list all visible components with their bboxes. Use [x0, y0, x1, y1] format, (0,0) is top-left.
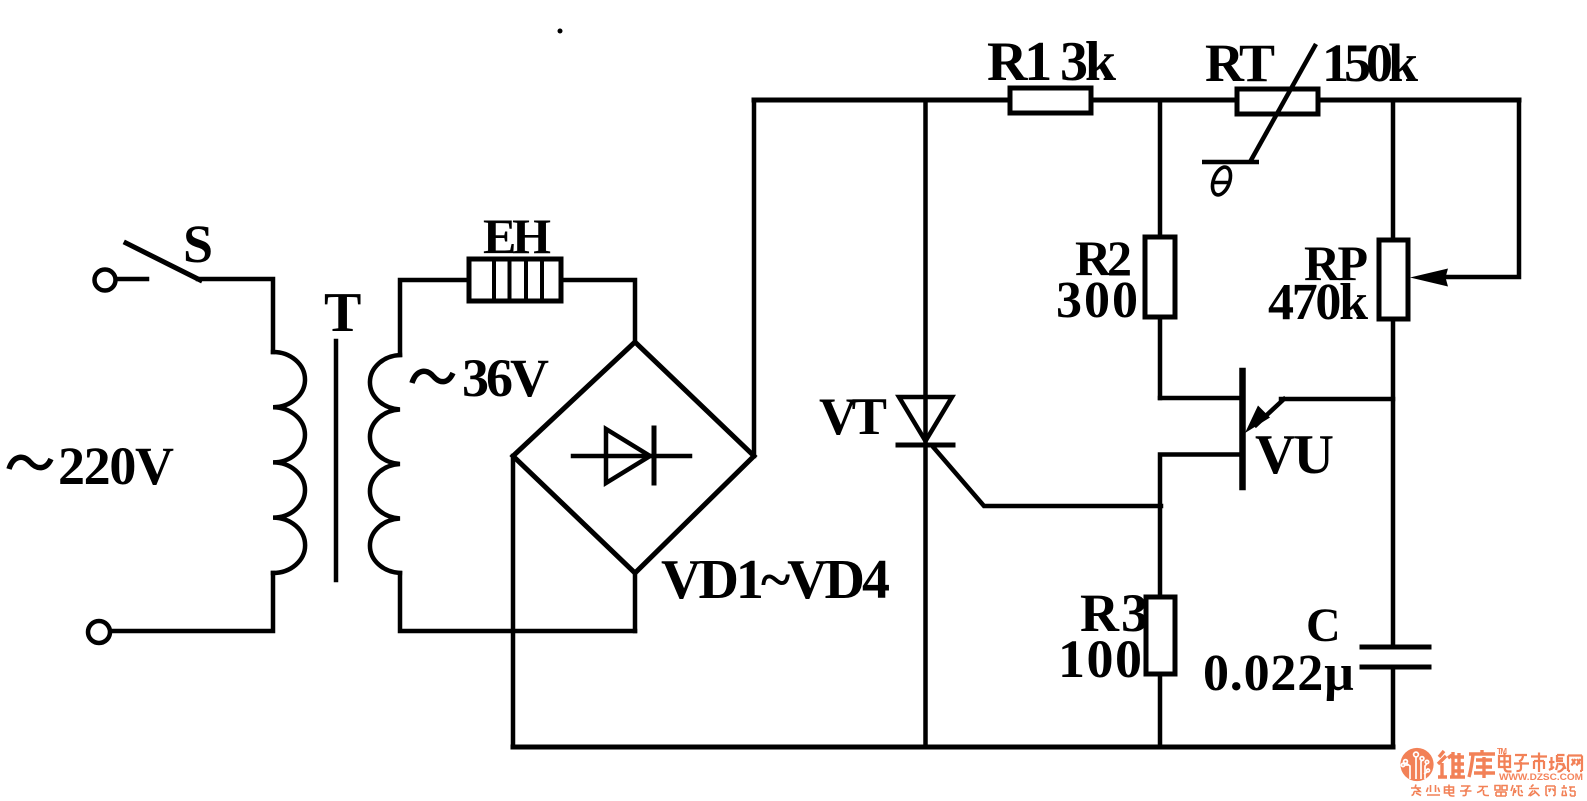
svg-text:S: S — [183, 214, 213, 274]
right loop wire to wiper — [1444, 100, 1519, 277]
bottom rail — [513, 745, 1393, 750]
svg-text:470k: 470k — [1268, 274, 1368, 331]
thermistor RT diagonal — [1250, 44, 1316, 162]
label ~220V — [9, 457, 51, 469]
svg-text:220V: 220V — [58, 436, 174, 496]
UJT VU emitter — [1256, 399, 1393, 425]
svg-text:EH: EH — [483, 208, 551, 264]
UJT VU bar — [1239, 371, 1246, 487]
VU b2 lead — [1160, 396, 1242, 401]
wire secondary top to EH — [400, 280, 469, 355]
switch S blade — [126, 243, 200, 280]
VU b1 lead — [1160, 455, 1242, 598]
transformer T secondary winding — [370, 355, 400, 573]
watermark slogan glyphs — [1411, 785, 1575, 797]
thermistor RT base bar — [1202, 160, 1259, 165]
wire R3 to bottom rail — [1158, 674, 1163, 747]
thyristor VT triangle — [899, 397, 952, 441]
terminal bottom-left — [88, 621, 110, 643]
UJT VU emitter arrowhead — [1245, 406, 1270, 434]
svg-text:TM: TM — [1497, 747, 1507, 756]
watermark logo circle — [1400, 748, 1433, 781]
svg-text:VU: VU — [1255, 424, 1334, 486]
svg-text:0.022µ: 0.022µ — [1203, 645, 1354, 702]
wire rail to R2 — [1158, 100, 1163, 237]
wire RP down to capacitor — [1391, 319, 1396, 647]
wire switch to primary — [198, 279, 273, 352]
svg-text:VT: VT — [819, 388, 887, 446]
wire bridge left output down — [511, 456, 516, 747]
thyristor VT cathode bar — [898, 443, 953, 448]
resistor R1 — [1010, 88, 1091, 113]
diode symbol inside bridge — [573, 454, 690, 459]
transformer T primary winding — [273, 352, 305, 573]
top rail — [754, 98, 1519, 103]
svg-text:36V: 36V — [462, 348, 549, 408]
watermark glyphs (dianzishichangwang) — [1499, 753, 1582, 773]
resistor R3 — [1146, 597, 1175, 674]
RP wiper arrowhead — [1410, 269, 1448, 287]
bridge bottom stub — [633, 573, 638, 631]
svg-text:T: T — [324, 282, 361, 344]
svg-text:RT: RT — [1205, 33, 1275, 93]
watermark brand glyphs (weiku) — [1438, 750, 1495, 778]
label ~36V — [412, 371, 453, 383]
wire R2 to VU b2 — [1158, 317, 1163, 398]
resistor R2 — [1145, 237, 1175, 317]
svg-text:VD1~VD4: VD1~VD4 — [661, 549, 890, 611]
wire primary bottom to terminal — [111, 573, 273, 631]
thyristor VT gate — [934, 448, 1161, 506]
thyristor VT anode/cathode line — [923, 100, 928, 747]
thermistor RT — [1237, 89, 1318, 114]
transformer core — [334, 341, 339, 580]
svg-text:100: 100 — [1058, 629, 1142, 689]
wire capacitor to bottom rail — [1391, 667, 1396, 747]
capacitor C plates — [1362, 647, 1429, 667]
label theta — [1209, 165, 1234, 198]
heating element EH — [469, 259, 561, 301]
speck — [558, 29, 563, 34]
svg-text:300: 300 — [1056, 272, 1138, 329]
wire terminal to switch — [116, 277, 147, 282]
wire secondary bottom to bridge bottom — [400, 573, 635, 631]
wire bridge right output up — [752, 100, 757, 456]
wire rail to RP — [1391, 100, 1396, 240]
svg-text:R1 3k: R1 3k — [987, 31, 1117, 93]
wire EH to bridge top — [561, 280, 635, 342]
potentiometer RP — [1379, 240, 1408, 319]
svg-text:WWW.DZSC.COM: WWW.DZSC.COM — [1499, 772, 1583, 783]
svg-text:150k: 150k — [1322, 33, 1418, 93]
bridge rectifier VD1~VD4 — [513, 342, 754, 573]
terminal top-left — [95, 270, 116, 291]
